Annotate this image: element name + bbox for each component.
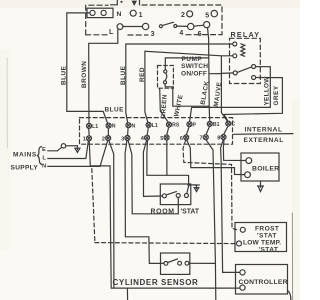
svg-text:INTERNAL: INTERNAL <box>245 127 283 134</box>
scan smudge left <box>6 58 8 148</box>
wire brown from L <box>89 30 118 124</box>
mains brace <box>37 147 42 165</box>
wire t8 to boiler upper <box>223 140 245 161</box>
strip top labels <box>92 122 235 130</box>
room stat blade <box>166 192 176 195</box>
relay coil terminal a <box>233 42 237 46</box>
mains N wire <box>48 141 108 167</box>
terminal 8 (external row) <box>221 135 226 140</box>
strip row links <box>89 126 228 136</box>
wire green <box>160 88 169 122</box>
terminal L1 (internal row) <box>87 123 92 128</box>
pump switch dashed box <box>158 66 174 89</box>
wire 4 to circle <box>177 25 188 27</box>
wire white from pump switch <box>165 84 209 106</box>
svg-text:MAINS: MAINS <box>13 152 37 159</box>
svg-text:RED: RED <box>139 67 146 82</box>
svg-text:L: L <box>109 29 114 36</box>
terminal RS (internal row) <box>167 122 172 127</box>
svg-text:2: 2 <box>181 12 186 19</box>
svg-text:YELLOW: YELLOW <box>263 76 270 106</box>
svg-text:BOILER: BOILER <box>252 166 279 173</box>
cyl sensor blade <box>168 259 178 263</box>
wire t4 to room stat dot <box>147 140 189 183</box>
svg-text:BLUE: BLUE <box>105 107 125 114</box>
svg-text:2: 2 <box>102 137 105 143</box>
relay coil terminal b <box>233 54 237 58</box>
terminal N (internal row) <box>106 123 111 128</box>
boiler terminal lower <box>245 172 251 178</box>
wire red from relay coil b <box>145 51 233 122</box>
svg-text:CONTROLLER: CONTROLLER <box>239 279 288 286</box>
svg-text:RS: RS <box>172 123 180 129</box>
pump switch contact top <box>164 70 167 73</box>
terminal C (internal row) <box>226 121 231 126</box>
frost stat terminal upper <box>240 227 245 232</box>
relay dashed box <box>230 38 261 83</box>
wire t8 to controller upper <box>221 140 240 273</box>
svg-text:SUPPLY: SUPPLY <box>11 164 39 171</box>
terminal L1 (internal row) <box>146 122 151 127</box>
strip bottom labels <box>83 135 221 142</box>
boiler terminal upper <box>246 158 252 164</box>
programmer terminal 1 <box>130 10 136 16</box>
room stat contact right <box>184 194 188 198</box>
svg-text:7: 7 <box>200 136 203 142</box>
svg-text:1: 1 <box>139 12 144 19</box>
earth ground symbol <box>66 146 78 150</box>
svg-text:P: P <box>193 122 197 128</box>
wire junction to black main <box>209 73 221 75</box>
terminal 5 (external row) <box>164 135 169 140</box>
frost stat box <box>235 223 287 252</box>
wire blue2 from relay coil a <box>126 44 233 123</box>
wire pump feed branch <box>165 58 209 70</box>
programmer terminal row2 <box>142 23 148 29</box>
wire dot to right contact <box>187 186 189 193</box>
programmer circle right <box>188 23 194 29</box>
wire t2 down <box>109 141 114 288</box>
svg-text:N: N <box>117 11 123 18</box>
terminal 1 (external row) <box>87 136 92 141</box>
wire bottom exit <box>126 288 128 300</box>
N terminal block <box>87 8 113 17</box>
wire t5 to room stat left <box>166 140 168 175</box>
mains supply earth circle <box>61 144 65 148</box>
svg-text:C: C <box>231 122 235 128</box>
cyl sensor contact left <box>164 262 168 266</box>
terminal B1 (internal row) <box>207 121 212 126</box>
terminal 4 (external row) <box>145 135 150 140</box>
mains L wire <box>48 141 89 159</box>
cylinder sensor box <box>161 253 190 274</box>
scan border right <box>291 213 293 300</box>
wire t7 down <box>206 140 216 300</box>
wire to 6 <box>194 25 204 26</box>
relay common contact <box>233 71 237 75</box>
relay contact no <box>252 65 256 69</box>
cyl sensor contact right <box>185 261 189 265</box>
programmer terminal 5 <box>211 10 217 16</box>
svg-text:CYLINDER SENSOR: CYLINDER SENSOR <box>113 278 199 287</box>
svg-text:N: N <box>132 123 136 129</box>
svg-text:GREY: GREY <box>273 85 280 105</box>
svg-text:N: N <box>112 124 116 130</box>
programmer terminal 6 <box>204 22 210 28</box>
svg-text:FROST: FROST <box>255 225 279 232</box>
svg-text:E: E <box>42 147 46 153</box>
relay coil <box>241 44 245 57</box>
svg-text:6: 6 <box>180 136 183 142</box>
terminal 6 (external row) <box>184 135 189 140</box>
contact 3 <box>159 25 162 28</box>
controller exit wire <box>288 291 291 300</box>
svg-text:ROOM: ROOM <box>151 209 175 216</box>
svg-text:N: N <box>42 164 47 170</box>
internal external divider <box>234 133 294 136</box>
controller terminal lower <box>240 285 245 290</box>
boiler box <box>241 153 279 181</box>
room stat box <box>160 184 191 205</box>
cyl sensor contact middle <box>178 261 182 265</box>
svg-text:'STAT: 'STAT <box>259 246 279 253</box>
svg-text:B1: B1 <box>213 122 220 128</box>
wire mauve vertical <box>221 56 227 121</box>
wire relay common to junction <box>221 72 233 75</box>
svg-text:SWITCH: SWITCH <box>181 63 208 70</box>
svg-text:3: 3 <box>121 136 124 142</box>
wire dashed low temp <box>92 169 235 244</box>
boiler ground <box>260 181 262 187</box>
svg-text:1: 1 <box>83 137 86 143</box>
svg-text:5: 5 <box>205 13 210 20</box>
svg-text:PUMP: PUMP <box>182 56 203 63</box>
programmer terminal L <box>117 24 123 30</box>
svg-text:BLUE: BLUE <box>120 65 127 85</box>
programmer dashed box <box>86 5 222 35</box>
wire t6 dashed to frost stat <box>183 140 237 230</box>
wire L to next <box>123 26 142 28</box>
wire black main from programmer 6 <box>208 28 210 122</box>
contact 4 <box>174 25 177 28</box>
pump switch contact bottom <box>163 81 166 84</box>
svg-text:BROWN: BROWN <box>81 61 88 88</box>
svg-text:L: L <box>42 155 46 161</box>
svg-text:RELAY: RELAY <box>231 30 261 39</box>
room stat contact middle <box>176 194 180 198</box>
wire t6 to boiler lower <box>187 140 245 175</box>
svg-text:6: 6 <box>198 31 203 38</box>
svg-text:'STAT: 'STAT <box>181 209 200 216</box>
svg-text:L1: L1 <box>92 124 98 130</box>
terminal N (internal row) <box>126 123 131 128</box>
wire blue from N block <box>67 13 108 123</box>
relay blade <box>237 67 251 73</box>
pump switch blade <box>165 73 167 81</box>
switch blade 3-4 <box>162 22 173 25</box>
wire t3 branch cylinder sensor <box>125 141 164 264</box>
svg-text:5: 5 <box>160 136 163 142</box>
terminal P (internal row) <box>187 122 192 127</box>
terminal 3 (external row) <box>125 135 130 140</box>
svg-text:ON/OFF: ON/OFF <box>181 71 207 78</box>
wire cylinder sensor right <box>189 262 216 264</box>
wire grey from relay <box>224 78 282 122</box>
svg-text:8: 8 <box>217 135 220 141</box>
svg-text:4: 4 <box>179 30 184 37</box>
terminal 7 (external row) <box>203 135 208 140</box>
relay contact nc <box>252 76 256 80</box>
top edge earth mark <box>111 0 118 5</box>
node room stat <box>187 183 190 186</box>
terminal strip dashed box <box>80 118 233 145</box>
controller box <box>236 265 288 295</box>
frost stat terminal lower <box>237 241 242 246</box>
svg-text:BLUE: BLUE <box>61 65 68 85</box>
terminal 2 (external row) <box>106 136 111 141</box>
controller terminal upper <box>240 270 245 275</box>
svg-text:EXTERNAL: EXTERNAL <box>244 137 284 144</box>
svg-text:3: 3 <box>151 31 156 38</box>
wire t1 down to controller lower <box>89 141 240 288</box>
wire t3 to room stat <box>128 141 178 214</box>
svg-text:'STAT: 'STAT <box>257 232 277 239</box>
svg-text:L1: L1 <box>152 123 158 129</box>
room stat ground <box>190 184 196 186</box>
programmer terminal 2 <box>187 11 193 17</box>
wire yellow from relay <box>190 67 271 122</box>
room stat contact left <box>162 194 166 198</box>
